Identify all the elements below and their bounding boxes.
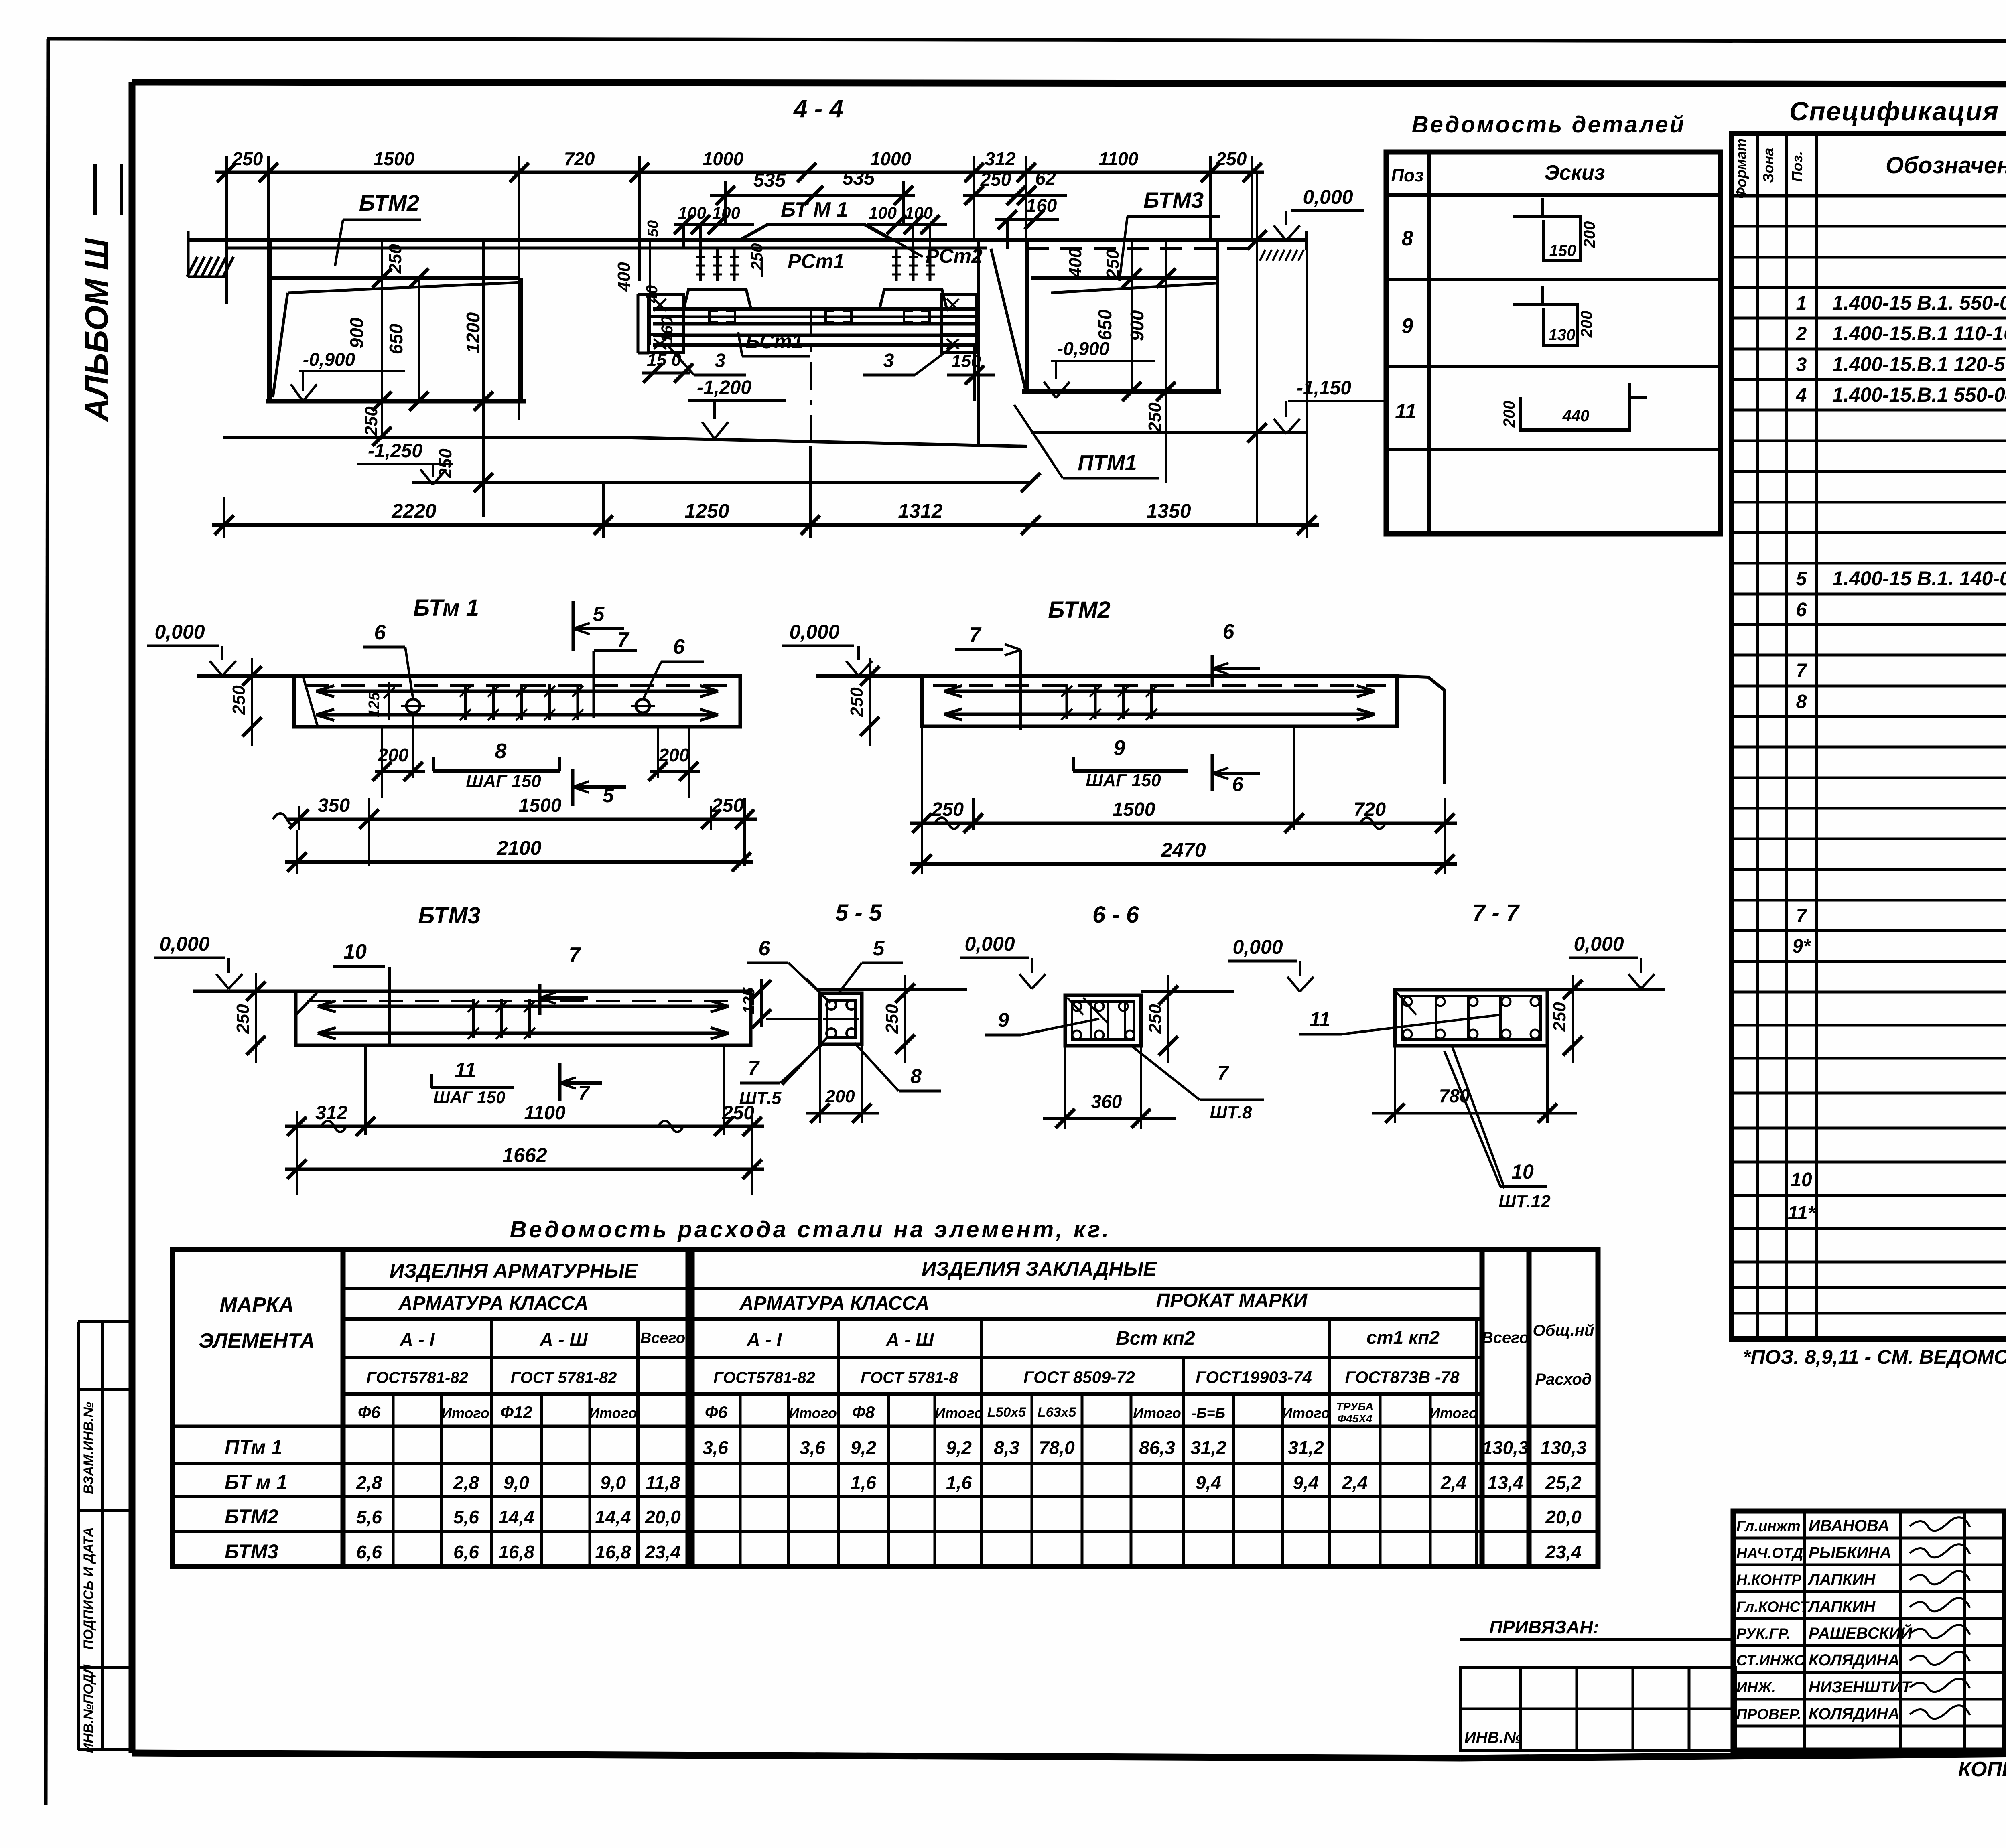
svg-text:1,6: 1,6: [946, 1472, 972, 1493]
svg-text:1350: 1350: [1146, 500, 1191, 522]
svg-text:350: 350: [318, 795, 350, 816]
4-4 dimension 100 100 labels left group: [674, 203, 754, 249]
section 6-6 zero line 0.000: [1141, 936, 1314, 992]
svg-text:8: 8: [1796, 691, 1807, 712]
svg-text:0,000: 0,000: [154, 621, 205, 643]
svg-text:1312: 1312: [898, 500, 942, 522]
section 6-6 label 9 leader: [985, 1009, 1099, 1035]
svg-text:312: 312: [985, 148, 1016, 169]
svg-text:БТМ2: БТМ2: [1048, 597, 1111, 623]
svg-text:Итого: Итого: [1429, 1405, 1478, 1421]
svg-text:ВЗАМ.ИНВ.№: ВЗАМ.ИНВ.№: [81, 1402, 96, 1494]
svg-text:23,4: 23,4: [644, 1542, 681, 1562]
svg-text:*ПОЗ. 8,9,11 - СМ. ВЕДОМОСТЬ: *ПОЗ. 8,9,11 - СМ. ВЕДОМОСТЬ ДЕТАЛЕЙ НА …: [1743, 1345, 2006, 1368]
signature squiggles: [1910, 1517, 1970, 1719]
svg-text:РСт1: РСт1: [788, 250, 845, 272]
section 5-5 labels 6 5: [747, 937, 903, 1003]
4-4 floor line right pit2: [1031, 402, 1307, 433]
svg-text:Гл.КОНСТ: Гл.КОНСТ: [1736, 1598, 1810, 1615]
svg-text:Ф45Х4: Ф45Х4: [1337, 1412, 1373, 1425]
beam BTM3 section flag 10: [333, 940, 390, 1047]
svg-text:Итого: Итого: [789, 1405, 837, 1421]
svg-text:1100: 1100: [524, 1102, 566, 1124]
beam BTM3 internals: [307, 999, 739, 1039]
svg-text:7 - 7: 7 - 7: [1472, 900, 1520, 926]
4-4 elevation -1.200 label: [688, 377, 786, 439]
signature table grid: [1733, 1511, 2005, 1750]
svg-text:ст1 кп2: ст1 кп2: [1366, 1327, 1440, 1348]
svg-text:250: 250: [882, 1004, 902, 1034]
svg-text:650: 650: [386, 323, 406, 354]
svg-text:Итого: Итого: [1282, 1405, 1330, 1421]
4-4 label RSt2 with leader: [867, 225, 983, 267]
signature table texts: [1736, 1517, 1913, 1723]
section 6-6 label 7 sht.8: [1131, 1046, 1264, 1122]
svg-text:13,4: 13,4: [1487, 1472, 1523, 1493]
svg-text:650: 650: [1094, 309, 1115, 340]
section 4-4 title: [793, 95, 843, 123]
svg-text:1500: 1500: [519, 795, 562, 816]
4-4 center axis dash line: [810, 309, 812, 525]
section 7-7 label 11 leader: [1299, 1008, 1500, 1034]
svg-text:2,8: 2,8: [453, 1472, 479, 1493]
svg-text:ШТ.12: ШТ.12: [1498, 1192, 1551, 1211]
svg-text:Расход: Расход: [1535, 1371, 1592, 1388]
4-4 label RSt1: [762, 250, 845, 277]
svg-text:ИЗДЕЛИЯ ЗАКЛАДНЫЕ: ИЗДЕЛИЯ ЗАКЛАДНЫЕ: [922, 1258, 1157, 1280]
svg-text:200: 200: [1500, 401, 1518, 428]
svg-text:40: 40: [643, 285, 661, 304]
svg-text:НАЧ.ОТД: НАЧ.ОТД: [1736, 1545, 1803, 1561]
svg-text:1200: 1200: [463, 312, 483, 353]
svg-text:250: 250: [1145, 1004, 1165, 1034]
svg-text:РУК.ГР.: РУК.ГР.: [1736, 1625, 1790, 1642]
svg-text:Итого: Итого: [589, 1405, 637, 1421]
4-4 left ground hatch: [187, 231, 233, 304]
beam BTM3 zero level 0.000: [154, 933, 242, 989]
svg-text:6: 6: [673, 635, 685, 659]
svg-text:РАШЕВСКИЙ: РАШЕВСКИЙ: [1809, 1623, 1913, 1642]
svg-text:ПТМ1: ПТМ1: [1078, 451, 1137, 475]
svg-text:А - Ш: А - Ш: [885, 1329, 934, 1350]
svg-text:9,4: 9,4: [1293, 1472, 1319, 1493]
svg-text:10: 10: [1511, 1160, 1534, 1183]
4-4 lowest slab line -1.250: [412, 473, 1040, 492]
svg-text:5: 5: [603, 784, 614, 807]
svg-text:Ф6: Ф6: [358, 1403, 381, 1422]
beam BTM1 dim 200 right: [648, 727, 700, 798]
svg-text:-1,250: -1,250: [368, 440, 422, 462]
beam BTM3 section flag 7 bottom: [560, 1063, 602, 1104]
svg-text:125: 125: [366, 692, 383, 717]
beam BTM1 dim 200 left with ticks: [372, 713, 425, 798]
svg-text:14,4: 14,4: [595, 1507, 631, 1527]
svg-text:1662: 1662: [502, 1144, 547, 1166]
svg-text:20,0: 20,0: [1545, 1507, 1582, 1527]
svg-text:ЛАПКИН: ЛАПКИН: [1807, 1571, 1876, 1588]
svg-text:15 0: 15 0: [647, 350, 681, 370]
svg-text:6: 6: [759, 937, 771, 960]
svg-text:3,6: 3,6: [800, 1437, 825, 1458]
4-4 dim 150 right: [947, 345, 995, 401]
4-4 pit 1 outline: [266, 240, 526, 401]
details list row 11 sketch: [1395, 383, 1647, 430]
svg-text:9,4: 9,4: [1196, 1472, 1221, 1493]
section 5-5 cross square: [806, 979, 862, 1044]
svg-text:1100: 1100: [1099, 148, 1139, 169]
beam BTM2 section flag 6 bottom: [1212, 754, 1260, 795]
svg-text:100: 100: [869, 203, 897, 222]
svg-text:23,4: 23,4: [1545, 1542, 1582, 1562]
svg-text:160: 160: [658, 316, 676, 343]
svg-text:9: 9: [998, 1009, 1009, 1031]
svg-text:ГОСТ5781-82: ГОСТ5781-82: [713, 1369, 815, 1387]
beam BTM2 rotated dim 250: [847, 658, 879, 746]
svg-text:11,8: 11,8: [646, 1472, 680, 1493]
svg-text:6,6: 6,6: [453, 1542, 479, 1562]
svg-text:L63х5: L63х5: [1038, 1405, 1076, 1420]
beam BTM1 leader 6 left: [363, 621, 413, 700]
svg-text:250: 250: [386, 244, 405, 274]
4-4 pit 2 outline: [979, 240, 1221, 446]
svg-text:7: 7: [578, 1082, 590, 1104]
svg-text:ЛАПКИН: ЛАПКИН: [1807, 1598, 1876, 1615]
beam BTM2 zero level 0.000: [782, 621, 872, 676]
4-4 elevation -1.250 label: [357, 440, 453, 485]
svg-text:100: 100: [712, 203, 740, 222]
beam BTM1 outline: [197, 676, 740, 727]
svg-text:3: 3: [883, 350, 894, 371]
svg-text:0,000: 0,000: [1232, 936, 1283, 958]
svg-text:БТМ3: БТМ3: [1143, 187, 1204, 213]
details list header labels: [1391, 161, 1605, 185]
svg-text:1,6: 1,6: [851, 1472, 876, 1493]
svg-text:ГОСТ 5781-82: ГОСТ 5781-82: [511, 1369, 617, 1387]
svg-text:Ф12: Ф12: [500, 1403, 532, 1422]
beam BTM1 zero level 0.000: [147, 621, 236, 676]
section 6-6 dim 250 rotated: [1145, 975, 1178, 1063]
svg-text:200: 200: [1581, 221, 1598, 249]
svg-text:1.400-15 В.1. 140-02: 1.400-15 В.1. 140-02: [1832, 567, 2006, 590]
svg-text:250: 250: [1145, 402, 1165, 432]
4-4 right end plates: [942, 294, 977, 352]
specification title: [1789, 96, 2006, 126]
svg-text:31,2: 31,2: [1288, 1437, 1324, 1458]
svg-text:0,000: 0,000: [964, 933, 1015, 955]
svg-text:1.400-15.В.1 550-04: 1.400-15.В.1 550-04: [1832, 383, 2006, 406]
svg-text:Спецификация ПТм1, БТМ1, БТ: Спецификация ПТм1, БТМ1, БТМ2, БТМ3.: [1789, 96, 2006, 126]
svg-text:250: 250: [980, 169, 1011, 190]
4-4 second dimension row 535/535: [710, 168, 915, 225]
svg-text:Ведомость расхода стали: Ведомость расхода стали на элемент, кг.: [510, 1217, 1111, 1243]
section 5-5 zero line 0.000: [818, 933, 1046, 990]
svg-text:СТ.ИНЖС: СТ.ИНЖС: [1736, 1652, 1805, 1669]
svg-text:АРМАТУРА КЛАССА: АРМАТУРА КЛАССА: [398, 1293, 589, 1314]
svg-text:9,0: 9,0: [504, 1472, 529, 1493]
svg-text:ГОСТ873В -78: ГОСТ873В -78: [1345, 1368, 1460, 1387]
svg-text:250: 250: [711, 795, 744, 816]
svg-text:1000: 1000: [703, 148, 744, 169]
svg-text:9: 9: [1402, 314, 1413, 338]
svg-text:250: 250: [847, 687, 867, 717]
svg-text:10: 10: [343, 940, 367, 964]
svg-text:150: 150: [1549, 242, 1576, 260]
beam BTM2 bottom chain 250/1500/720: [910, 726, 1457, 874]
svg-text:11*: 11*: [1788, 1203, 1816, 1224]
svg-text:-Б=Б: -Б=Б: [1192, 1405, 1225, 1421]
svg-text:0,000: 0,000: [159, 933, 209, 955]
svg-text:200: 200: [658, 744, 690, 765]
4-4 pit 1 dim verticals: [372, 240, 493, 436]
svg-text:7: 7: [1217, 1062, 1229, 1084]
svg-text:Итого: Итого: [1133, 1405, 1181, 1421]
svg-text:2220: 2220: [391, 500, 436, 522]
svg-text:Ф6: Ф6: [705, 1403, 728, 1422]
4-4 label BTM2 with leader: [335, 190, 421, 266]
svg-text:Итого: Итого: [935, 1405, 983, 1421]
svg-text:РСт2: РСт2: [926, 245, 983, 267]
svg-text:250: 250: [233, 1004, 253, 1034]
svg-text:200: 200: [1578, 311, 1596, 338]
section 7-7 dim 250 rotated: [1550, 975, 1582, 1063]
4-4 label PTM1 with leader: [1014, 405, 1159, 478]
svg-text:7: 7: [617, 628, 630, 651]
svg-text:БТМ2: БТМ2: [225, 1505, 278, 1528]
svg-text:ИЗДЕЛНЯ АРМАТУРНЫЕ: ИЗДЕЛНЯ АРМАТУРНЫЕ: [390, 1260, 638, 1282]
svg-text:900: 900: [1127, 310, 1147, 341]
svg-text:ИНВ.№ПОДЛ: ИНВ.№ПОДЛ: [81, 1664, 96, 1753]
beam BTM3 label 11 шаг 150: [431, 1059, 514, 1107]
svg-text:5: 5: [1796, 568, 1807, 590]
svg-text:9,0: 9,0: [600, 1472, 626, 1493]
svg-text:130,3: 130,3: [1482, 1437, 1529, 1458]
svg-text:250: 250: [748, 243, 766, 271]
svg-text:Ведомость деталей: Ведомость деталей: [1412, 112, 1686, 138]
section 5-5 title: [835, 900, 882, 926]
svg-text:А - Ш: А - Ш: [539, 1329, 588, 1350]
svg-text:4 - 4: 4 - 4: [793, 95, 843, 123]
svg-text:ШАГ 150: ШАГ 150: [1086, 771, 1161, 790]
svg-text:Формат: Формат: [1733, 138, 1749, 199]
svg-text:Вст кп2: Вст кп2: [1116, 1328, 1195, 1349]
4-4 witness verticals from top chain: [227, 156, 1252, 420]
section 6-6 title: [1092, 902, 1139, 928]
svg-text:Зона: Зона: [1760, 148, 1777, 183]
svg-text:250: 250: [229, 685, 249, 715]
svg-text:3: 3: [715, 350, 726, 371]
beam BTM1 title: [413, 595, 479, 621]
svg-text:БТ м 1: БТ м 1: [225, 1471, 288, 1493]
4-4 pit2 rotated dims 400/250/650/900: [1066, 248, 1147, 341]
svg-text:ШАГ 150: ШАГ 150: [466, 771, 541, 791]
svg-text:8: 8: [910, 1065, 922, 1087]
4-4 leader 3 right: [863, 345, 955, 375]
svg-text:ГОСТ 8509-72: ГОСТ 8509-72: [1023, 1368, 1135, 1387]
svg-text:312: 312: [315, 1102, 347, 1124]
4-4 bottom dimension chain 2220/1250/1312/1350: [212, 250, 1319, 538]
beam BTM1 leader 6 right: [643, 635, 704, 700]
svg-text:16,8: 16,8: [595, 1542, 631, 1562]
4-4 weld bracket marks on beam: [709, 311, 930, 322]
beam BTM2 section flag 6 top: [1212, 620, 1260, 687]
svg-text:0,000: 0,000: [1303, 186, 1353, 208]
4-4 anchor stub group 1: [684, 248, 751, 309]
svg-text:62: 62: [1035, 168, 1056, 189]
4-4 rotated 50 and 250 small dims: [614, 220, 766, 345]
svg-text:РЫБКИНА: РЫБКИНА: [1809, 1544, 1891, 1562]
svg-text:АЛЬБОМ Ш: АЛЬБОМ Ш: [79, 238, 114, 422]
svg-text:БТ М 1: БТ М 1: [781, 198, 848, 221]
beam BTM3 total dim 1662: [285, 1144, 764, 1179]
beam BTM1 label 8 шаг 150: [433, 740, 560, 791]
svg-text:Эскиз: Эскиз: [1545, 161, 1605, 185]
beam BTM1 internals: [305, 684, 729, 720]
title block main box: [2005, 1517, 2006, 1750]
svg-text:125: 125: [740, 987, 758, 1014]
svg-text:250: 250: [1550, 1002, 1569, 1032]
beam BTM1 dim 125 rotated: [366, 682, 395, 720]
svg-text:7: 7: [748, 1057, 760, 1079]
svg-text:3: 3: [1796, 354, 1807, 375]
beam BTM3 outline: [193, 991, 751, 1045]
svg-text:535: 535: [843, 168, 875, 189]
svg-text:250: 250: [361, 406, 381, 436]
svg-text:Поз.: Поз.: [1789, 151, 1805, 182]
beam BTM3 rotated dim 250: [233, 973, 266, 1063]
svg-text:0,000: 0,000: [1574, 933, 1624, 955]
4-4 right ground hatch: [1260, 250, 1304, 261]
svg-text:ПРИВЯЗАН:: ПРИВЯЗАН:: [1489, 1617, 1599, 1637]
svg-text:2,8: 2,8: [356, 1472, 382, 1493]
album III rotated label: [79, 164, 122, 422]
section 5-5 dim 200: [806, 1044, 879, 1123]
svg-text:ПРОКАТ МАРКИ: ПРОКАТ МАРКИ: [1156, 1290, 1308, 1311]
4-4 central beam assembly horizontals: [653, 309, 975, 345]
svg-text:БТМ3: БТМ3: [225, 1540, 278, 1563]
svg-text:250: 250: [1216, 148, 1247, 169]
svg-text:ЭЛЕМЕНТА: ЭЛЕМЕНТА: [199, 1329, 315, 1353]
svg-text:2,4: 2,4: [1440, 1472, 1466, 1493]
steel table data rows: [225, 1436, 1587, 1563]
svg-text:1000: 1000: [870, 148, 912, 169]
svg-text:ИНЖ.: ИНЖ.: [1736, 1679, 1776, 1696]
section 6-6 dim 360: [1043, 1046, 1176, 1129]
beam BTM1 section flag 5 top: [573, 601, 624, 651]
section 5-5 dim 250 rotated: [882, 975, 915, 1063]
svg-text:5 - 5: 5 - 5: [835, 900, 882, 926]
svg-text:-0,900: -0,900: [303, 349, 355, 370]
svg-text:7: 7: [969, 623, 982, 647]
kopiroval and format labels: [1958, 1758, 2006, 1781]
svg-text:Всего: Всего: [640, 1330, 685, 1347]
details list table grid: [1386, 152, 1720, 534]
svg-text:5,6: 5,6: [356, 1507, 382, 1527]
specification rows text: [1788, 200, 2006, 1336]
4-4 elevation -0.900 in pit1: [291, 349, 405, 401]
svg-text:6: 6: [1223, 620, 1235, 643]
4-4 BTM2 beam stub above floor: [740, 225, 892, 240]
4-4 dim vertical x=3133: [1247, 172, 1267, 525]
svg-text:А - I: А - I: [747, 1329, 782, 1350]
beam BTM1 section flag 7: [594, 628, 637, 718]
svg-text:АРМАТУРА КЛАССА: АРМАТУРА КЛАССА: [739, 1293, 930, 1314]
beam BTM2 title: [1048, 597, 1111, 623]
svg-text:9: 9: [1114, 736, 1125, 760]
svg-text:250: 250: [931, 799, 964, 820]
svg-text:2100: 2100: [496, 837, 541, 859]
4-4 rotated dim 250 at -1.250: [436, 401, 493, 517]
svg-text:3,6: 3,6: [703, 1437, 728, 1458]
specification table grid: [1732, 134, 2006, 1339]
svg-text:ПРОВЕР.: ПРОВЕР.: [1736, 1706, 1801, 1722]
4-4 elevation -1.150 label: [1274, 377, 1384, 434]
svg-text:0,000: 0,000: [789, 621, 839, 643]
svg-text:2,4: 2,4: [1342, 1472, 1368, 1493]
4-4 pit1 rotated dims 250/900/650/1200: [346, 244, 483, 355]
svg-text:6,6: 6,6: [356, 1542, 382, 1562]
beam BTM2 internals: [933, 684, 1386, 720]
svg-text:6 - 6: 6 - 6: [1092, 902, 1139, 928]
svg-text:А - I: А - I: [400, 1329, 435, 1350]
svg-text:1: 1: [1796, 293, 1807, 314]
svg-text:440: 440: [1562, 407, 1590, 425]
svg-text:МАРКА: МАРКА: [219, 1293, 294, 1317]
beam BTM3 section flag 7 top: [540, 943, 588, 1015]
beam BTM1 bottom chain 350/1500/250: [273, 795, 757, 866]
beam BTM1 section flag 5 bottom: [573, 769, 626, 807]
svg-text:БТМ3: БТМ3: [418, 903, 481, 929]
svg-text:ГОСТ19903-74: ГОСТ19903-74: [1196, 1368, 1312, 1387]
details list row 8 sketch: [1402, 198, 1598, 261]
svg-text:400: 400: [614, 262, 634, 292]
4-4 lower slab line -1.200: [223, 437, 1027, 446]
svg-text:9*: 9*: [1792, 936, 1811, 957]
4-4 label BTM1: [781, 198, 848, 221]
section 6-6 cross rect: [1065, 995, 1141, 1046]
4-4 dim 150 left: [642, 350, 693, 383]
svg-text:Итого: Итого: [441, 1405, 489, 1421]
4-4 rotated dim 250 below pit1: [361, 406, 392, 446]
svg-text:КОЛЯДИНА: КОЛЯДИНА: [1809, 1651, 1900, 1669]
beam BTM2 section flag 7 top: [955, 623, 1021, 730]
svg-text:Общ.нй: Общ.нй: [1533, 1322, 1594, 1339]
svg-text:ПОДПИСЬ И ДАТА: ПОДПИСЬ И ДАТА: [81, 1527, 96, 1650]
svg-text:535: 535: [753, 170, 786, 191]
svg-text:9,2: 9,2: [851, 1437, 876, 1458]
beam BTM3 title: [418, 903, 481, 929]
section 5-5 label 7 sht.5: [739, 1037, 827, 1108]
svg-text:ГОСТ 5781-8: ГОСТ 5781-8: [861, 1369, 959, 1387]
svg-text:7: 7: [1796, 905, 1808, 927]
4-4 leader 3 left: [668, 346, 746, 375]
svg-text:8: 8: [495, 740, 507, 763]
svg-text:ИВАНОВА: ИВАНОВА: [1809, 1517, 1889, 1535]
svg-text:130,3: 130,3: [1540, 1437, 1587, 1458]
beam BTM1 total dim 2100: [285, 830, 753, 874]
svg-text:6: 6: [1796, 599, 1807, 621]
section 7-7 cross rect: [1395, 990, 1547, 1046]
svg-text:-0,900: -0,900: [1057, 338, 1110, 359]
svg-text:11: 11: [1310, 1008, 1330, 1030]
svg-text:1.400-15 В.1. 550-06: 1.400-15 В.1. 550-06: [1832, 292, 2006, 314]
details list title: [1412, 112, 1686, 138]
4-4 left end plates: [638, 294, 684, 353]
svg-text:8: 8: [1402, 227, 1413, 250]
svg-text:ГОСТ5781-82: ГОСТ5781-82: [366, 1369, 468, 1387]
svg-text:БТМ2: БТМ2: [359, 190, 419, 215]
section 5-5 dim 125 rotated: [740, 979, 822, 1028]
svg-text:31,2: 31,2: [1190, 1437, 1226, 1458]
